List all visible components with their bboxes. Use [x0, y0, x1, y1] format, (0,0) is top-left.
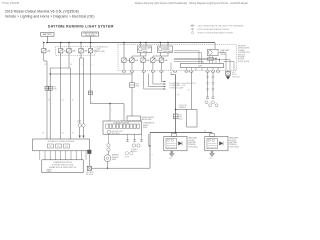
- variant circles: [205, 101, 208, 104]
- svg-text:GR: GR: [188, 90, 190, 92]
- fuse F9: [151, 58, 155, 62]
- svg-text:GR: GR: [70, 64, 72, 66]
- IPDM E/R dashed box: [118, 44, 237, 70]
- wire color code smudges: [42, 64, 190, 157]
- svg-text:7/7/22, 2:54 PM: 7/7/22, 2:54 PM: [2, 2, 19, 5]
- fuse F10: [159, 58, 163, 62]
- legend row 1: [190, 25, 195, 27]
- wire cpu twisted outputs: [208, 72, 214, 97]
- wire sensor to bus: [107, 162, 109, 169]
- svg-text:WITH: WITH: [78, 120, 82, 122]
- combination meter box: [103, 121, 142, 134]
- svg-text:2016 Nissan-Datsun Maxima V6-3: 2016 Nissan-Datsun Maxima V6-3.5L (VQ35D…: [5, 9, 79, 13]
- svg-text:E22: E22: [210, 158, 213, 160]
- svg-text:GROUND): GROUND): [232, 76, 240, 78]
- svg-text:(GR): (GR): [179, 117, 183, 119]
- svg-text:M107: M107: [179, 119, 183, 121]
- ground E24 with hatch: [227, 71, 229, 72]
- combination meter feed box: [127, 116, 141, 121]
- svg-text:M77: M77: [136, 83, 139, 85]
- main power bus: [47, 42, 215, 44]
- svg-text:RUNNING: RUNNING: [188, 144, 196, 146]
- fuse F5: [88, 49, 92, 53]
- wire cross horizontal: [50, 73, 132, 75]
- svg-text:RH (LED): RH (LED): [229, 140, 236, 142]
- svg-text:: WITHOUT DRIVER ASSISTANCE SY: : WITHOUT DRIVER ASSISTANCE SYSTEM: [197, 31, 234, 34]
- wire relay outputs to fuse row: [132, 53, 168, 59]
- wire variant loop: [190, 72, 192, 109]
- connector RH top: [211, 132, 213, 135]
- wire battery to bus: [46, 36, 48, 42]
- ground LH: [169, 154, 174, 156]
- svg-text:O: O: [92, 101, 93, 103]
- fuse F2: [60, 43, 62, 49]
- relay K2 daytime running light relay: [158, 46, 173, 53]
- svg-text:METER: METER: [143, 125, 149, 127]
- legend row 3: [192, 32, 194, 34]
- connector M32 pair: [45, 86, 49, 90]
- svg-text:BATTERY: BATTERY: [43, 33, 53, 36]
- svg-text:RUNNING: RUNNING: [229, 144, 237, 146]
- svg-text:SENSOR: SENSOR: [112, 157, 120, 159]
- svg-text:R/Y: R/Y: [42, 133, 44, 135]
- svg-text:E24: E24: [232, 72, 235, 74]
- wire bus drops to relays: [139, 43, 141, 47]
- wire bus drop into IPDM fuse 1: [123, 43, 125, 59]
- svg-text:(E122), (E123): (E122), (E123): [238, 61, 250, 63]
- wire across to meter: [90, 103, 124, 105]
- node bus junctions: [43, 42, 125, 44]
- svg-text:O: O: [133, 91, 134, 93]
- wire fuse outputs to IPDM bottom: [124, 62, 161, 70]
- svg-text:B: B: [152, 155, 153, 157]
- CPU box: [181, 63, 224, 67]
- svg-text:M32: M32: [53, 87, 56, 89]
- svg-text:E21: E21: [169, 158, 172, 160]
- wire pair with variant circles to BCM arrows: [80, 53, 82, 58]
- wire ignition to fuse block: [90, 36, 92, 48]
- wire RH to ground: [211, 151, 213, 154]
- wire connector down: [131, 87, 133, 116]
- fuse block dashed box: [56, 47, 96, 56]
- svg-text:GR: GR: [177, 95, 179, 97]
- svg-text:BCM (BODY CONTROL MODULE): BCM (BODY CONTROL MODULE): [48, 141, 75, 143]
- svg-text:(M34): (M34): [143, 127, 148, 129]
- wire LH to ground: [171, 151, 173, 154]
- sensor component: [108, 151, 110, 155]
- LED symbol LH: [178, 141, 182, 145]
- nested wires right of cpu: [219, 53, 234, 71]
- wire relay3 to cpu: [210, 56, 220, 64]
- fuse F7: [130, 58, 134, 62]
- svg-text:O: O: [91, 64, 92, 66]
- connector E107: [173, 114, 178, 119]
- svg-text:HIGH: HIGH: [143, 49, 147, 51]
- svg-text:V: V: [82, 64, 83, 66]
- BCM box: [33, 139, 90, 151]
- svg-text:M57 (BODY: M57 (BODY: [86, 172, 94, 174]
- connector LH top: [173, 132, 175, 135]
- connector M66 on F5 wire: [88, 91, 92, 95]
- meter segments: [106, 124, 140, 128]
- svg-text:O: O: [111, 110, 112, 112]
- svg-text:UNIFIED METER: UNIFIED METER: [142, 117, 155, 119]
- svg-text:LIGHT) (E26): LIGHT) (E26): [229, 146, 239, 148]
- nested wires into cpu left: [174, 51, 220, 64]
- svg-text:E107: E107: [179, 114, 183, 116]
- svg-text:(M3), (M4): (M3), (M4): [97, 51, 106, 53]
- arrows to other systems: [144, 72, 164, 89]
- meter DRL indicator: [107, 130, 111, 134]
- svg-text:CPU: CPU: [198, 66, 203, 68]
- battery B1: [41, 33, 54, 37]
- headlamp bus: [150, 132, 212, 134]
- wire F5 feed down: [89, 53, 91, 104]
- relay K1 headlamp high: [138, 46, 152, 53]
- svg-text:F03: F03: [65, 146, 68, 148]
- ground RH: [210, 154, 215, 156]
- wire cpu bottom stubs: [171, 63, 218, 71]
- fuse F3: [68, 43, 70, 49]
- meter bottom stubs: [109, 134, 149, 146]
- BCM to combination switch wires: [40, 151, 86, 160]
- svg-text:WITH DTRL: WITH DTRL: [179, 105, 187, 107]
- svg-text:(GR): (GR): [53, 89, 57, 91]
- svg-text:Daytime Running Light System (: Daytime Running Light System (LED Headla…: [135, 2, 248, 5]
- combination switch box: [42, 160, 83, 173]
- svg-text:: CAN COMMUNICATION LINE (WITH: : CAN COMMUNICATION LINE (WITH TYPE DIAG…: [197, 24, 244, 27]
- variant circles below meter: [132, 144, 135, 147]
- svg-text:RUNNING: RUNNING: [163, 49, 171, 51]
- svg-text:: WITH DRIVER ASSISTANCE SYSTE: : WITH DRIVER ASSISTANCE SYSTEM: [197, 28, 230, 31]
- svg-text:(GR): (GR): [136, 85, 140, 87]
- wire relay feed to headlamp bus: [171, 72, 176, 75]
- svg-text:GROUND): GROUND): [86, 174, 94, 176]
- meter output circles: [107, 144, 110, 147]
- svg-text:SIGNAL SWITCH, WIPER SWITCH): SIGNAL SWITCH, WIPER SWITCH): [49, 166, 77, 169]
- svg-text:GR GR: GR GR: [125, 157, 130, 159]
- svg-text:GR: GR: [72, 133, 74, 135]
- left drop wires to BCM: [43, 53, 45, 61]
- legend row 2: [192, 28, 194, 30]
- ignition switch box: [82, 32, 99, 36]
- svg-text:Vehicle > Lighting and Horns >: Vehicle > Lighting and Horns > Diagrams …: [5, 15, 95, 19]
- connector pair below cpu wires: [206, 97, 215, 98]
- connector M77: [131, 72, 133, 83]
- ground bolt M57: [87, 166, 91, 170]
- svg-text:R/Y: R/Y: [48, 100, 50, 102]
- svg-text:F01: F01: [49, 146, 52, 148]
- svg-text:GR: GR: [72, 100, 74, 102]
- fuse F4: [80, 43, 82, 49]
- headlamp LH box: [164, 136, 187, 150]
- fuse F1 15A: [43, 43, 45, 49]
- fuse F8: [141, 58, 145, 62]
- svg-text:LIGHT) (E41): LIGHT) (E41): [188, 146, 198, 148]
- svg-text:M28: M28: [48, 170, 51, 172]
- BCM internal blocks: [48, 144, 70, 148]
- ipdm bottom connector stubs: [123, 71, 220, 73]
- fuse F6: [122, 58, 126, 62]
- relay K3 headlamp low: [214, 43, 216, 50]
- svg-text:LH (LED): LH (LED): [188, 140, 195, 142]
- LED symbol RH: [219, 141, 223, 145]
- svg-text:IGNITION SWITCH: IGNITION SWITCH: [83, 33, 98, 35]
- svg-text:R/Y: R/Y: [45, 64, 47, 66]
- headlamp RH box: [205, 136, 228, 150]
- cpu control box above: [208, 58, 214, 61]
- BCM ground connector: [88, 150, 92, 154]
- svg-text:(M56): (M56): [112, 159, 117, 161]
- pin number smudges: [46, 69, 218, 157]
- svg-text:DAYTIME RUNNING LIGHT SYSTEM: DAYTIME RUNNING LIGHT SYSTEM: [48, 24, 114, 28]
- svg-text:F02: F02: [57, 146, 60, 148]
